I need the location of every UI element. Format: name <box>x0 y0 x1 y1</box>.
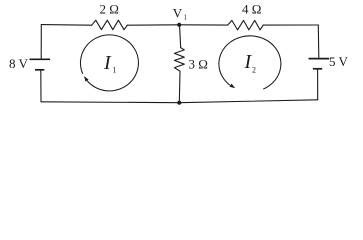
mesh current I1 clockwise loop arrow <box>80 35 138 91</box>
svg-text:2: 2 <box>252 65 256 74</box>
mesh current I2 counterclockwise loop arrow <box>219 36 281 89</box>
wire middle branch lower <box>178 71 181 103</box>
resistor R 4ohm zigzag <box>228 20 264 30</box>
battery V1 8V long plate <box>30 58 51 60</box>
battery V1 8V short plate <box>35 69 44 71</box>
svg-text:8 V: 8 V <box>9 56 29 71</box>
wire top-left segment <box>41 24 91 27</box>
wire right branch upper <box>317 25 320 58</box>
wire left branch upper <box>40 25 42 59</box>
battery V2 5V short plate <box>313 68 322 70</box>
label node voltage V1 <box>173 6 188 22</box>
wire left branch lower <box>40 70 42 101</box>
node Vt top junction dot <box>177 23 181 27</box>
resistor R 2ohm zigzag <box>92 20 128 30</box>
label mesh current I2 <box>244 51 257 74</box>
svg-text:2 Ω: 2 Ω <box>100 2 119 17</box>
svg-text:I: I <box>103 52 112 74</box>
wire middle branch upper <box>180 25 181 48</box>
label mesh current I1 <box>103 52 117 74</box>
wire right branch lower <box>317 69 319 99</box>
svg-text:1: 1 <box>113 65 117 74</box>
svg-text:5 V: 5 V <box>329 54 349 69</box>
wire bottom left segment <box>41 101 179 104</box>
svg-text:4 Ω: 4 Ω <box>242 2 261 17</box>
svg-text:V: V <box>173 6 183 21</box>
resistor R 3ohm vertical zigzag <box>174 48 184 71</box>
node bottom junction dot <box>177 101 181 105</box>
wire bottom right segment <box>179 100 317 103</box>
wire top-middle-right segment <box>179 24 227 26</box>
wire top-right segment <box>263 24 318 26</box>
svg-text:3 Ω: 3 Ω <box>189 57 208 72</box>
battery V2 5V long plate <box>309 58 330 60</box>
wire top-middle-left segment <box>127 24 179 26</box>
svg-text:1: 1 <box>184 13 188 21</box>
